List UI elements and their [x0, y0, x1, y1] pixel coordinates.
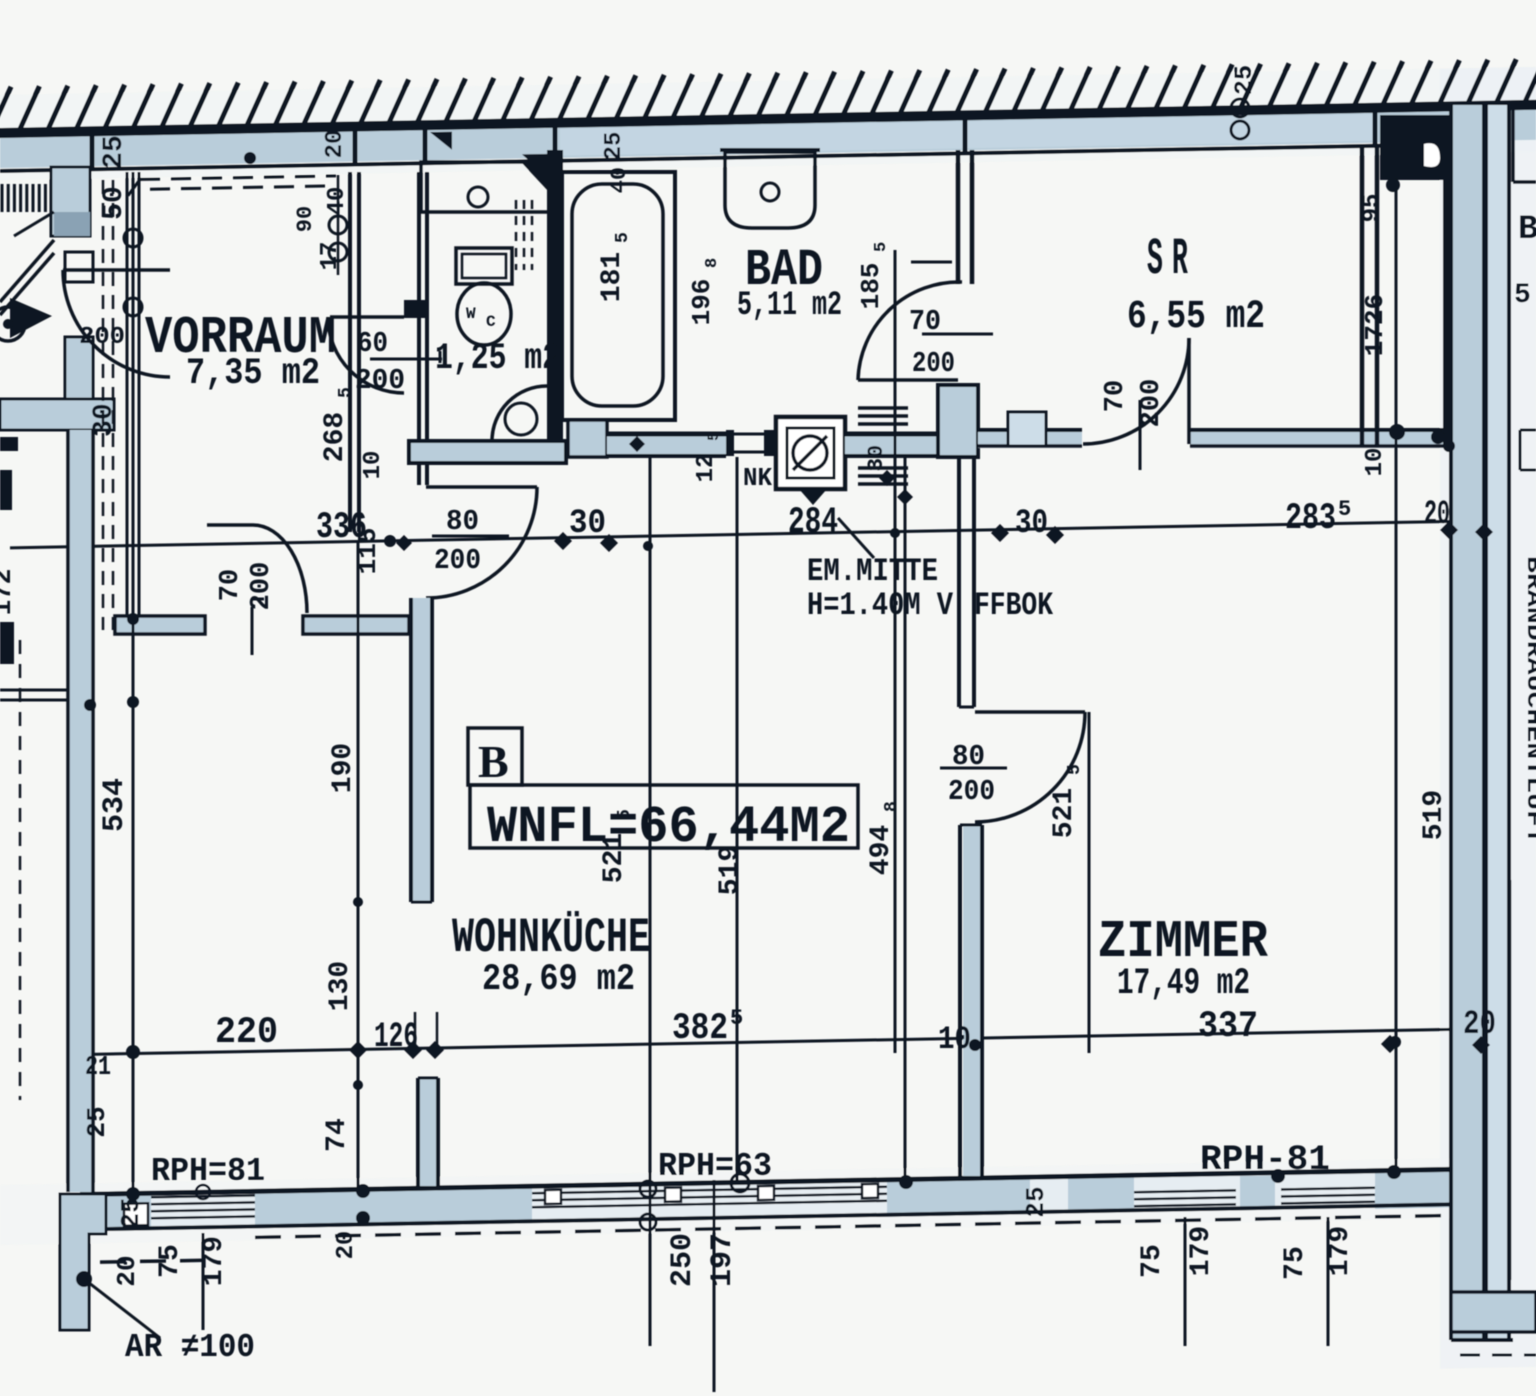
svg-text:EM.MITTE: EM.MITTE — [807, 553, 938, 590]
diamonds on upper dim line — [554, 532, 572, 550]
svg-text:FFBOK: FFBOK — [974, 587, 1054, 624]
VORRAUM east wall — [348, 172, 352, 532]
svg-text:30: 30 — [1015, 505, 1048, 543]
svg-text:12: 12 — [693, 454, 720, 483]
BAD south wall east part — [845, 434, 958, 456]
leader line AR — [84, 1279, 160, 1338]
vertical dim line x1089 — [1088, 712, 1091, 1053]
svg-text:10: 10 — [1362, 448, 1389, 477]
svg-text:521: 521 — [599, 833, 630, 883]
window 3 glazing — [1134, 1190, 1236, 1192]
SR south wall east segment — [1190, 432, 1451, 448]
WNFL box — [470, 785, 858, 848]
stair stringer diagonals — [0, 240, 54, 302]
svg-text:519: 519 — [1419, 790, 1450, 840]
VORRAUM west finish line — [126, 172, 129, 630]
wohnkueche west wall lower stub — [420, 1078, 436, 1186]
BAD east wall upper — [956, 150, 961, 284]
lower long dimension line — [85, 1029, 1453, 1054]
svg-text:181: 181 — [597, 252, 628, 302]
window 1 glazing — [151, 1195, 255, 1197]
dashed vertical left — [19, 640, 22, 1100]
WC south wall — [409, 441, 566, 463]
svg-text:197: 197 — [706, 1233, 740, 1287]
svg-text:126: 126 — [374, 1017, 418, 1057]
svg-text:20: 20 — [1463, 1006, 1496, 1044]
right double wall divider — [1482, 105, 1488, 1340]
leader line from 284 to flue — [838, 518, 874, 558]
svg-text:382: 382 — [672, 1008, 728, 1050]
svg-text:RPH=63: RPH=63 — [658, 1148, 772, 1185]
svg-text:25: 25 — [1021, 1186, 1051, 1217]
radiator tick marks — [858, 406, 908, 410]
vertical dim line x358 — [357, 542, 360, 1187]
svg-text:5,11 m2: 5,11 m2 — [737, 287, 842, 325]
VORRAUM south wall right segment — [303, 616, 409, 634]
diamonds on lower dim line — [349, 1041, 367, 1059]
wall junction marks top band — [90, 135, 95, 169]
svg-text:75: 75 — [1137, 1244, 1168, 1278]
SR door leaf and arc — [1187, 338, 1191, 444]
shaft top corner block — [1380, 115, 1451, 180]
svg-text:190: 190 — [328, 743, 359, 793]
svg-text:95: 95 — [1359, 194, 1386, 223]
long dashed line below bottom wall — [255, 1215, 1460, 1237]
left unit lower vertical wall — [68, 430, 93, 1192]
svg-text:90: 90 — [293, 206, 318, 232]
window 2 mullions — [545, 1190, 561, 1204]
svg-text:25: 25 — [1230, 65, 1259, 95]
right unit fixture marks — [1520, 429, 1536, 432]
right unit bottom band — [1451, 1292, 1536, 1332]
diamond pair near flue — [879, 470, 895, 486]
NK niche — [726, 430, 734, 456]
WC east wall — [547, 150, 563, 463]
svg-text:6,55 m2: 6,55 m2 — [1127, 295, 1265, 340]
svg-text:RPH=81: RPH=81 — [151, 1153, 265, 1190]
svg-text:25: 25 — [99, 135, 130, 169]
right double wall leaf A — [1451, 105, 1482, 1340]
diamond at BAD wall west end — [629, 436, 645, 452]
bottom-left wall foot — [60, 1194, 106, 1330]
top wall bottom line — [0, 144, 1462, 171]
dashed guide lines left of VORRAUM — [102, 180, 105, 630]
svg-text:70: 70 — [1101, 380, 1131, 412]
svg-text:25: 25 — [82, 1106, 112, 1137]
svg-text:200: 200 — [355, 364, 405, 397]
svg-text:521: 521 — [1049, 788, 1080, 838]
svg-text:179: 179 — [199, 1236, 230, 1286]
svg-text:200: 200 — [247, 562, 277, 611]
svg-text:W: W — [466, 305, 476, 323]
VORRAUM south wall left segment — [115, 616, 205, 634]
right double wall bottom cap — [1451, 1338, 1513, 1342]
svg-text:185: 185 — [856, 263, 886, 310]
svg-text:5: 5 — [705, 431, 723, 441]
svg-text:200: 200 — [912, 347, 955, 380]
svg-text:7,35 m2: 7,35 m2 — [186, 353, 320, 395]
SR radiator niche block — [1008, 412, 1046, 446]
svg-text:172: 172 — [0, 569, 18, 616]
svg-text:1,25 m2: 1,25 m2 — [435, 338, 560, 380]
window wash — [151, 1171, 1375, 1230]
svg-text:74: 74 — [322, 1118, 353, 1152]
svg-text:519: 519 — [715, 845, 746, 895]
left wall piece below stair door — [65, 252, 93, 282]
svg-text:179: 179 — [1325, 1226, 1356, 1276]
svg-text:70: 70 — [216, 569, 246, 601]
vertical dim line x905 — [904, 457, 907, 1180]
svg-text:220: 220 — [215, 1012, 278, 1054]
svg-text:AR ≠100: AR ≠100 — [125, 1329, 255, 1366]
window 2 glazing — [532, 1187, 887, 1194]
svg-text:8: 8 — [703, 258, 722, 268]
closet north block — [404, 300, 425, 318]
vorraum south door leaf and arc — [207, 523, 253, 527]
window 4 glazing — [1281, 1188, 1375, 1190]
svg-text:17: 17 — [317, 242, 344, 271]
BAD washbasin — [725, 152, 815, 228]
svg-text:RPH-81: RPH-81 — [1200, 1140, 1330, 1180]
svg-text:20: 20 — [112, 1255, 142, 1286]
svg-text:250: 250 — [666, 1233, 700, 1287]
svg-text:494: 494 — [866, 825, 897, 875]
wall stub below bathtub — [568, 420, 607, 457]
svg-text:200: 200 — [434, 544, 481, 577]
vertical dim line x895 — [894, 250, 897, 1053]
partition lower segment with fill — [963, 825, 981, 1176]
svg-text:B: B — [478, 736, 509, 787]
wall chunk at partition head — [938, 385, 978, 457]
top exterior wall fill — [0, 109, 1536, 168]
svg-text:30: 30 — [89, 403, 120, 437]
svg-text:130: 130 — [325, 961, 356, 1011]
witness lines below windows — [202, 1233, 205, 1330]
svg-text:5: 5 — [872, 242, 891, 252]
svg-text:20: 20 — [322, 130, 349, 159]
shaft right edge — [1443, 131, 1451, 446]
svg-text:1726: 1726 — [1360, 294, 1390, 356]
right unit interior line — [1513, 180, 1536, 184]
svg-text:284: 284 — [788, 502, 838, 544]
dark blob at WC junction — [430, 132, 452, 150]
SR east wall — [1360, 147, 1365, 446]
partition upper segment — [957, 457, 961, 707]
BAD south wall west part — [607, 434, 726, 456]
svg-text:75: 75 — [155, 1244, 186, 1278]
svg-text:200: 200 — [79, 324, 125, 351]
left edge black fragments — [0, 437, 18, 451]
stair treads — [1, 184, 4, 212]
bottom wall top line — [80, 1169, 1465, 1194]
svg-text:60: 60 — [357, 327, 388, 360]
svg-text:25: 25 — [116, 1197, 146, 1228]
WC west wall — [417, 172, 421, 485]
right double wall leaf B — [1488, 105, 1509, 1340]
left unit mid wall band — [0, 399, 114, 430]
svg-text:80: 80 — [446, 505, 479, 538]
vertical dim line x650 — [649, 457, 652, 1346]
bottom exterior wall fill segments — [80, 1191, 151, 1231]
left wall lower horizontal line — [0, 689, 68, 692]
svg-text:H=1.40M V: H=1.40M V — [807, 587, 954, 624]
bathtub inner — [572, 184, 663, 406]
svg-text:75: 75 — [1280, 1246, 1311, 1280]
bathtub outer — [562, 172, 675, 420]
SR south wall west segment — [978, 432, 1082, 448]
entry door ring — [0, 307, 25, 341]
svg-text:C: C — [486, 313, 496, 331]
svg-text:5: 5 — [1065, 764, 1085, 775]
closet door 60/200 leaf and arc — [330, 315, 404, 319]
svg-text:SR: SR — [1147, 230, 1197, 289]
svg-text:5: 5 — [336, 387, 356, 398]
WC toilet — [456, 248, 512, 284]
flue — [776, 417, 845, 489]
svg-text:10: 10 — [938, 1021, 971, 1058]
corner window box — [124, 1203, 148, 1225]
upper long dimension line — [10, 521, 1449, 547]
B box — [468, 728, 522, 785]
svg-text:534: 534 — [98, 778, 132, 832]
svg-text:5: 5 — [613, 232, 633, 243]
svg-text:BRANDRAUCHENTLÜFT: BRANDRAUCHENTLÜFT — [1521, 556, 1536, 844]
svg-text:NK: NK — [743, 463, 772, 493]
svg-text:40: 40 — [324, 187, 351, 216]
left unit wall strip upper — [51, 167, 90, 236]
top wall boundary thick line — [0, 105, 1536, 133]
svg-text:20: 20 — [333, 1231, 360, 1260]
top hatch band strokes — [0, 87, 11, 133]
svg-text:200: 200 — [948, 775, 995, 808]
svg-text:17,49 m2: 17,49 m2 — [1117, 963, 1250, 1005]
vertical dim line x133 — [132, 172, 135, 1191]
svg-text:179: 179 — [1186, 1226, 1217, 1276]
dashed lines below top wall — [140, 176, 336, 180]
vertical dim line x1396 — [1395, 190, 1398, 1175]
corridor door 80/200 leaf and arc — [426, 485, 537, 489]
svg-text:25: 25 — [601, 132, 628, 161]
svg-text:196: 196 — [687, 279, 717, 326]
entry door black wedge — [10, 298, 52, 338]
svg-text:8: 8 — [882, 801, 902, 812]
BAD door leaf and arc — [858, 378, 958, 382]
svg-text:50: 50 — [99, 186, 130, 220]
svg-text:30: 30 — [864, 445, 889, 471]
svg-text:WOHNKÜCHE: WOHNKÜCHE — [452, 910, 650, 966]
right edge vertical line — [1509, 880, 1512, 1280]
svg-text:268: 268 — [320, 412, 351, 462]
window end circles — [640, 1181, 656, 1197]
svg-text:5: 5 — [730, 1006, 743, 1031]
entry door leaf and arc (VORRAUM) — [63, 268, 170, 272]
svg-text:337: 337 — [1198, 1006, 1258, 1048]
svg-text:40: 40 — [607, 167, 632, 193]
svg-text:20: 20 — [1424, 496, 1450, 534]
vertical dim line x338 — [337, 175, 340, 275]
svg-text:B: B — [1518, 211, 1536, 249]
ZIMMER door leaf and arc — [975, 710, 1085, 714]
paper tint areas — [0, 67, 1536, 180]
WC counter with basin — [421, 162, 549, 212]
svg-text:WNFL=66,44M2: WNFL=66,44M2 — [487, 798, 850, 857]
junction dots — [244, 152, 256, 164]
svg-text:115: 115 — [353, 528, 383, 575]
svg-text:28,69 m2: 28,69 m2 — [482, 959, 635, 1001]
svg-text:283: 283 — [1285, 498, 1336, 540]
WC plumbing dashes — [515, 200, 518, 270]
bottom wall bottom line — [80, 1204, 1465, 1229]
small circles with dot ticks — [124, 229, 142, 247]
svg-text:10: 10 — [360, 451, 387, 480]
WC door arc — [492, 386, 547, 441]
svg-text:5: 5 — [1338, 497, 1351, 522]
svg-text:21: 21 — [85, 1053, 111, 1083]
svg-text:5.: 5. — [1514, 280, 1536, 311]
svg-text:5: 5 — [615, 809, 635, 820]
svg-text:30: 30 — [569, 505, 606, 543]
wohnkueche west wall upper stub — [413, 598, 432, 902]
vertical dim line x737 — [736, 457, 739, 1180]
